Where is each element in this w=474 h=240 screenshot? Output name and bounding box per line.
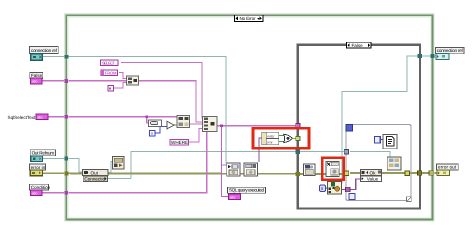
terminal: Out Refnum: [30, 150, 55, 162]
svg-text:No Error: No Error: [240, 16, 256, 21]
junction: teal at green border top: [65, 55, 69, 59]
constant: sFROM string: [101, 70, 118, 75]
wire: query string down to Execute and local var: [222, 126, 229, 197]
junction: SqlSelectText at green border: [65, 115, 69, 119]
node: OR gate: [284, 134, 293, 142]
terminal: connection ref (right indicator): [436, 47, 464, 59]
case structure: outer green frame (No Error): [66, 15, 432, 219]
constant: blue numeric 0: [149, 130, 155, 136]
property node: Ok / Value: [360, 170, 381, 182]
tunnel: teal into gray frame: [296, 149, 300, 153]
red highlight box 2: [322, 158, 343, 180]
junction: error at green border: [65, 172, 69, 176]
svg-text:connection ref: connection ref: [31, 48, 58, 53]
junction: teal at green border right: [430, 54, 434, 58]
svg-text:Condition: Condition: [31, 185, 51, 190]
svg-text:Out Refnum: Out Refnum: [32, 150, 55, 155]
wire: refnum teal inside False case: [342, 56, 436, 184]
svg-text:abc: abc: [32, 80, 38, 84]
red highlight box 1: [253, 128, 309, 148]
svg-text:Ok: Ok: [370, 170, 377, 175]
svg-text:False: False: [31, 73, 43, 78]
tunnel: error on loop border right: [405, 171, 410, 176]
constant: blue class const bottom: [320, 185, 326, 191]
svg-text:FROM: FROM: [105, 70, 117, 75]
wire: Out Refnum teal to property node: [42, 159, 113, 173]
svg-text:rror: rror: [267, 141, 273, 145]
svg-text:WHERE: WHERE: [171, 140, 188, 145]
svg-text:error in: error in: [31, 165, 46, 170]
tunnel: error on loop border left: [344, 171, 349, 176]
terminal: error in: [29, 164, 45, 176]
node: concat1: [127, 76, 139, 85]
wire: node B up to unbundle purple: [259, 138, 262, 162]
wire: bottom node to Value purple: [342, 179, 361, 190]
tunnel: boolean out of OR gate on gray border: [296, 136, 300, 140]
tunnel: teal on loop border: [344, 150, 348, 154]
node: Execute Query VI (A): [227, 163, 240, 176]
case structure: inner gray frame (False): [298, 45, 420, 209]
wire: concat2 out to tunnel: [217, 125, 297, 127]
junction: False string at green border: [65, 79, 69, 83]
tunnel: error into gray frame: [296, 172, 300, 176]
node: doc icon VI inside loop: [383, 134, 397, 148]
wire: sFROM to concat1: [119, 73, 127, 79]
terminal: error out: [437, 164, 459, 176]
label: SQL query executed: [228, 187, 266, 193]
svg-text:SELECT: SELECT: [102, 60, 116, 65]
node: DB icon VI left of red box 2: [304, 164, 315, 176]
node: grid icon VI inside loop: [387, 157, 401, 170]
svg-text:Connectio: Connectio: [84, 176, 105, 181]
svg-text:Out: Out: [91, 170, 99, 175]
wire: error olive main run: [42, 173, 437, 174]
node: select function: [177, 116, 189, 128]
junction dot: concat2 output: [220, 124, 223, 127]
tunnel: purple on loop border: [346, 187, 350, 191]
loop frame inside False case: [346, 125, 411, 201]
local variable: abc string: [228, 194, 240, 200]
wire: unbundle to OR gate: [279, 135, 285, 137]
wire: connection ref teal top run: [42, 57, 226, 164]
wire: WHERE const up: [189, 129, 204, 143]
tunnel: error out of gray frame: [418, 171, 422, 175]
svg-text:SQL query executed: SQL query executed: [229, 188, 264, 193]
svg-text:SqlSelectText: SqlSelectText: [8, 115, 37, 120]
constant: space string: [108, 85, 114, 90]
wire: select node out: [190, 123, 204, 125]
wire: Condition long run: [42, 132, 207, 193]
terminal: SqlSelectText: [8, 114, 48, 120]
tunnel: teal out of gray frame right: [418, 54, 422, 58]
svg-text:abc: abc: [37, 115, 43, 119]
node: comparison triangle: [167, 121, 174, 129]
property node: Out / Connection: [83, 170, 108, 182]
loop iteration terminal: [349, 194, 355, 200]
svg-text:error out: error out: [438, 165, 457, 170]
loop top-left blue icon: [346, 125, 353, 132]
node: string length: [149, 120, 162, 126]
wire: teal inside loop: [350, 152, 390, 158]
constant: WHERE string: [170, 139, 189, 145]
junction: error at green border right: [429, 171, 433, 175]
wire: blue const to doc icon: [380, 139, 383, 141]
wire: blue const to bottom node: [325, 187, 328, 189]
constant: blue array bracket inside loop: [375, 136, 381, 143]
wire: SqlSelectText run: [48, 116, 177, 118]
svg-text:abc: abc: [32, 192, 38, 196]
terminal: False (left): [30, 73, 43, 84]
svg-text:connection ref: connection ref: [437, 48, 464, 53]
junction: out refnum at green border: [65, 157, 69, 161]
selector label: No Error: [235, 15, 264, 21]
wire: space const to concat1: [114, 83, 128, 89]
loop resize handle: [407, 197, 412, 202]
wire: OR gate out to tunnel: [293, 138, 297, 140]
svg-text:noEr: noEr: [267, 134, 275, 138]
junction dot: SqlSelectText branch: [145, 115, 148, 118]
node: small VI above property node: [113, 157, 125, 169]
svg-text:Value: Value: [367, 177, 379, 182]
node: VI inside red box 2: [326, 161, 339, 176]
wire: refnum teal mid run to loop: [108, 152, 347, 179]
wire: SELECT string to concat2: [121, 63, 203, 119]
node: bottom DB VI inside False case: [328, 182, 342, 194]
selector label: False: [347, 42, 372, 48]
terminal: connection ref (left): [30, 47, 59, 61]
wire: blue const to triangle: [155, 127, 167, 134]
terminal: Condition: [30, 184, 51, 196]
svg-text:False: False: [352, 43, 364, 48]
junction: condition at green border: [65, 191, 69, 195]
wire: False string long run to concat2: [42, 81, 203, 122]
svg-text:abc: abc: [230, 196, 236, 200]
constant: SELECT string: [101, 60, 118, 66]
node: concat2: [203, 116, 217, 131]
node: unbundle by name: [262, 132, 279, 144]
node: Fetch VI (B): [244, 163, 257, 176]
wire: triangle to select green: [174, 124, 177, 126]
tunnel: string into gray frame: [296, 124, 300, 128]
